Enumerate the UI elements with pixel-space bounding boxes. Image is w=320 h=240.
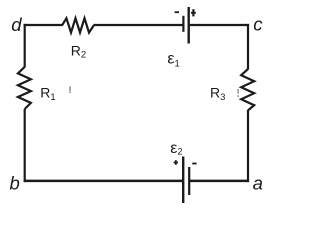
stray print mark near R3 xyxy=(237,89,238,97)
svg-text:b: b xyxy=(10,173,20,194)
battery E1 plus sign xyxy=(191,9,196,16)
wire: left side, lead from b to R1 xyxy=(24,109,26,182)
battery E1 positive plate (long) xyxy=(187,7,189,44)
resistor R1 xyxy=(18,67,31,109)
svg-text:ε2: ε2 xyxy=(170,140,182,157)
wire: bottom segment from E2 to corner b xyxy=(24,180,184,183)
wire: top segment from E1 to corner c xyxy=(189,24,249,26)
svg-text:ε1: ε1 xyxy=(167,50,179,69)
battery E2 negative plate (short) xyxy=(188,167,190,195)
wire: bottom segment from corner a to battery E2 xyxy=(189,180,249,183)
wire: right side, lead from c to R3 xyxy=(247,24,249,70)
battery E2 plus sign xyxy=(174,160,178,165)
svg-text:R3: R3 xyxy=(210,85,225,103)
resistor R2 xyxy=(62,18,94,32)
battery E1 negative plate (short) xyxy=(182,16,184,32)
wire: top segment from node d to resistor R2 xyxy=(24,24,63,26)
wire: right side, lead from R3 to corner a xyxy=(247,110,249,182)
battery E1 minus sign xyxy=(175,11,179,13)
battery E2 minus sign xyxy=(192,163,196,165)
svg-text:a: a xyxy=(253,173,263,194)
svg-text:d: d xyxy=(11,14,22,35)
wire: top segment from R2 to battery E1 xyxy=(93,24,183,26)
svg-text:R1: R1 xyxy=(40,85,55,103)
resistor R3 xyxy=(241,69,254,110)
stray print mark near R1 xyxy=(69,86,70,93)
battery E2 positive plate (long) xyxy=(182,157,184,204)
svg-text:R2: R2 xyxy=(71,42,86,60)
wire: left side, lead from R1 to corner d xyxy=(24,24,26,67)
svg-text:c: c xyxy=(253,14,263,35)
